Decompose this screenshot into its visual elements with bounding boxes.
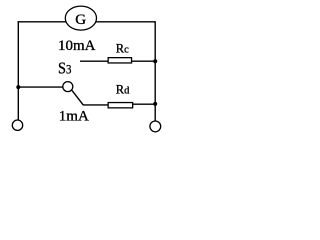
terminal bottom right	[150, 121, 161, 132]
terminal bottom left	[12, 120, 22, 130]
resistor Rd	[108, 103, 132, 108]
svg-text:1mA: 1mA	[59, 109, 89, 125]
wire top right segment	[96, 21, 156, 23]
wire right vertical	[154, 21, 156, 120]
svg-text:Rc: Rc	[116, 41, 129, 55]
node junction right upper	[153, 59, 157, 63]
switch S3 pivot	[63, 82, 73, 92]
node junction right lower	[153, 102, 157, 106]
svg-text:Rd: Rd	[116, 82, 130, 96]
wire top left segment	[18, 21, 67, 23]
wire left vertical	[17, 21, 19, 120]
wire switch common	[18, 86, 62, 88]
wire Rc branch right	[132, 60, 156, 62]
galvanometer U1	[65, 6, 96, 30]
svg-text:10mA: 10mA	[58, 38, 96, 54]
wire Rd branch right	[133, 103, 156, 105]
svg-text:S3: S3	[58, 60, 72, 78]
node junction left	[16, 85, 20, 89]
wire Rc branch left (switch upper throw contact)	[80, 60, 108, 62]
wire Rd branch left	[83, 104, 108, 106]
resistor Rc	[108, 58, 131, 63]
switch S3 blade	[72, 90, 83, 105]
svg-text:G: G	[75, 12, 86, 28]
